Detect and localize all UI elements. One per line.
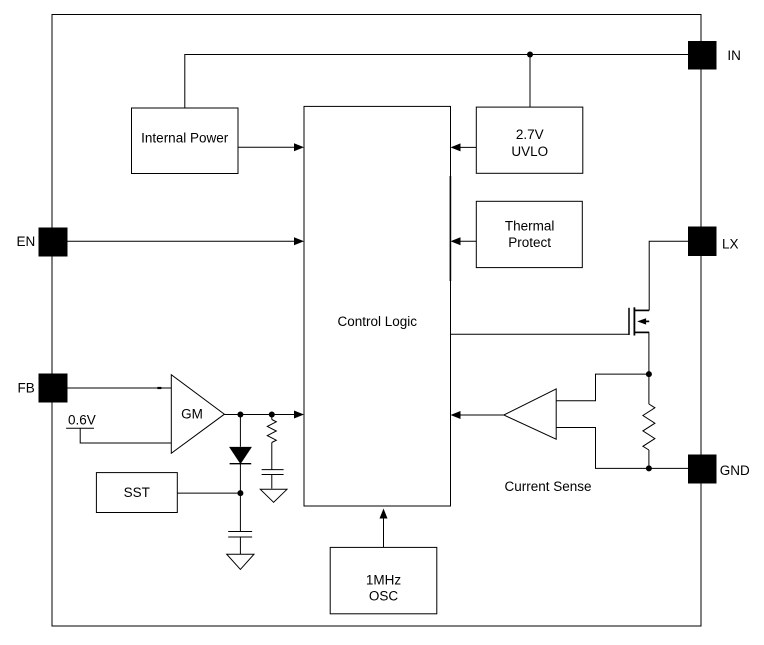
wire GND node to GND pin	[649, 467, 688, 469]
wire MOSFET source to sense resistor	[648, 332, 650, 404]
block SST	[96, 473, 177, 513]
wire current sense output to Control Logic	[451, 411, 504, 419]
svg-text:LX: LX	[722, 237, 739, 252]
op-amp GM error amplifier	[171, 375, 224, 454]
resistor R1 compensation	[267, 420, 276, 443]
wire R2 to GND node	[648, 450, 650, 468]
svg-text:SST: SST	[124, 485, 150, 500]
wire junction to UVLO	[529, 55, 531, 108]
transistor Q1 NMOS	[629, 307, 649, 335]
ground below C2	[260, 489, 287, 502]
wire Control Logic to MOSFET gate	[451, 333, 630, 335]
label 0.6V reference	[66, 413, 96, 429]
wire OSC to Control Logic	[380, 509, 388, 548]
wire 0.6V to GM amplifier	[80, 428, 171, 443]
wire VIN top rail	[185, 55, 688, 108]
pin FB	[18, 374, 68, 403]
node GM output dot B	[269, 412, 275, 418]
block Thermal Protect	[476, 201, 582, 267]
wire current sense bottom input	[556, 428, 649, 469]
svg-text:GND: GND	[720, 463, 750, 478]
node SST junction	[237, 490, 243, 496]
svg-text:GM: GM	[181, 407, 203, 422]
wire Thermal Protect to Control Logic	[451, 237, 477, 245]
node VIN junction dot	[527, 52, 533, 58]
wire current sense top input	[556, 374, 649, 401]
diode D1	[230, 447, 252, 463]
svg-text:IN: IN	[727, 48, 741, 63]
node GM output dot A	[237, 412, 243, 418]
svg-text:Control Logic: Control Logic	[338, 314, 418, 329]
node sense resistor top	[646, 371, 652, 377]
svg-text:Protect: Protect	[508, 235, 551, 250]
wire FB to GM amplifier	[68, 387, 172, 389]
svg-text:Thermal: Thermal	[505, 218, 555, 233]
pin IN	[688, 41, 741, 70]
svg-text:1MHz: 1MHz	[366, 573, 402, 588]
svg-text:FB: FB	[18, 381, 35, 396]
wire bus segment on Control Logic right edge	[449, 176, 451, 281]
pin GND	[688, 455, 750, 484]
block Internal Power	[132, 108, 239, 174]
block 1MHz OSC	[330, 547, 437, 613]
wire GM output to diode	[239, 415, 241, 447]
svg-text:2.7V: 2.7V	[516, 127, 544, 142]
svg-text:0.6V: 0.6V	[68, 413, 96, 428]
resistor R2 sense	[643, 404, 655, 450]
pin EN	[17, 228, 68, 257]
op-amp current sense comparator	[504, 389, 556, 439]
svg-text:UVLO: UVLO	[511, 144, 548, 159]
pin LX	[688, 227, 739, 257]
block Control Logic	[304, 106, 451, 506]
wire GM comp branch	[271, 415, 273, 420]
wire GM output to Control Logic	[224, 411, 304, 419]
svg-text:Internal Power: Internal Power	[141, 130, 229, 145]
ground below C1	[227, 554, 254, 569]
capacitor C1 soft-start	[228, 532, 252, 555]
svg-text:OSC: OSC	[369, 589, 399, 604]
block 2.7V UVLO	[476, 107, 583, 173]
wire R1 to C2	[271, 443, 273, 470]
capacitor C2 compensation	[262, 470, 284, 489]
svg-text:EN: EN	[17, 234, 36, 249]
wire UVLO to Control Logic	[451, 143, 477, 151]
node sense resistor bottom	[646, 465, 652, 471]
svg-text:Current Sense: Current Sense	[505, 479, 592, 494]
wire LX to MOSFET drain	[649, 241, 688, 310]
wire SST to node	[177, 492, 240, 494]
wire EN to Control Logic	[68, 237, 305, 245]
wire Internal Power to Control Logic	[238, 143, 304, 151]
wire diode to SST node	[239, 464, 241, 532]
